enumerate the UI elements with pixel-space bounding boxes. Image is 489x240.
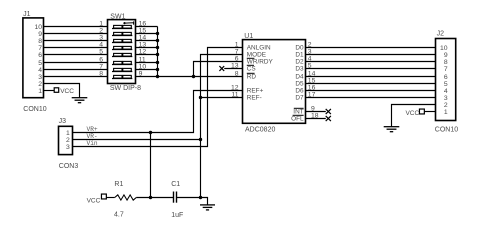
svg-text:Vin: Vin bbox=[87, 140, 98, 147]
no-connect X on OFL bbox=[306, 116, 331, 121]
svg-text:2: 2 bbox=[444, 102, 448, 109]
svg-text:6: 6 bbox=[99, 57, 103, 64]
no-connect X on CS bbox=[219, 66, 242, 71]
U1 pin CS (overline) bbox=[247, 65, 256, 72]
no-connect X on INT bbox=[306, 109, 331, 114]
svg-text:J3: J3 bbox=[59, 118, 67, 125]
svg-text:3: 3 bbox=[38, 74, 42, 81]
U1 pins D0-D7 bbox=[295, 45, 304, 102]
svg-text:MODE: MODE bbox=[247, 52, 266, 59]
bus vertical (SW1 outputs) bbox=[157, 27, 159, 77]
U1 pin RD (overline) bbox=[247, 73, 257, 80]
wire J2 pin 2 to ground bbox=[392, 105, 436, 127]
svg-text:D5: D5 bbox=[295, 81, 304, 88]
wires U1 D0-D7 to J2 bbox=[306, 48, 436, 98]
svg-text:REF-: REF- bbox=[247, 95, 262, 102]
svg-text:1: 1 bbox=[444, 109, 448, 116]
svg-text:ANLGIN: ANLGIN bbox=[247, 45, 271, 52]
svg-text:INT: INT bbox=[293, 109, 303, 116]
svg-text:7: 7 bbox=[38, 45, 42, 52]
svg-text:R1: R1 bbox=[114, 181, 123, 188]
svg-text:4: 4 bbox=[38, 67, 42, 74]
wires SW1 right pins to bus bbox=[136, 27, 158, 70]
wire J1 pin 1 to VCC bbox=[44, 90, 54, 92]
junction dot REF-/MODE net bbox=[199, 96, 202, 99]
svg-text:3: 3 bbox=[444, 95, 448, 102]
wire REF- bbox=[201, 97, 243, 99]
connector J3 bbox=[59, 118, 79, 170]
U1 left pin numbers bbox=[231, 42, 239, 99]
svg-text:1: 1 bbox=[38, 88, 42, 95]
svg-text:10: 10 bbox=[34, 24, 42, 31]
svg-text:D3: D3 bbox=[295, 66, 304, 73]
svg-text:WR/RDY: WR/RDY bbox=[247, 59, 274, 66]
U1 right pin numbers bbox=[308, 42, 319, 120]
wire VR- bbox=[73, 139, 201, 141]
wire MODE vertical bbox=[201, 55, 243, 198]
svg-text:4.7: 4.7 bbox=[114, 212, 124, 219]
junction dot R1/C1/VR+ bbox=[149, 196, 152, 199]
svg-text:3: 3 bbox=[99, 35, 103, 42]
svg-text:VCC: VCC bbox=[87, 197, 101, 204]
svg-text:D6: D6 bbox=[295, 88, 304, 95]
svg-text:2: 2 bbox=[99, 28, 103, 35]
wire ANLGIN to Vin bbox=[73, 48, 243, 147]
connector J2 bbox=[435, 31, 458, 134]
svg-text:7: 7 bbox=[235, 49, 239, 56]
dip switch SW1 bbox=[99, 13, 146, 92]
svg-text:8: 8 bbox=[235, 71, 239, 78]
junction dots on bus bbox=[156, 32, 159, 78]
svg-text:6: 6 bbox=[235, 56, 239, 63]
power symbol VCC (J2) bbox=[405, 109, 424, 117]
svg-text:SW DIP-8: SW DIP-8 bbox=[110, 85, 141, 92]
svg-text:6: 6 bbox=[38, 52, 42, 59]
svg-text:8: 8 bbox=[38, 38, 42, 45]
U1 pin OFL (overline) bbox=[291, 115, 304, 122]
svg-text:CON10: CON10 bbox=[23, 106, 46, 113]
junction dot VR- bbox=[199, 138, 202, 141]
ground (below J2) bbox=[384, 127, 400, 132]
svg-text:D2: D2 bbox=[295, 59, 304, 66]
svg-text:6: 6 bbox=[444, 74, 448, 81]
ground (below J1) bbox=[72, 98, 88, 103]
svg-text:D0: D0 bbox=[295, 45, 304, 52]
svg-text:5: 5 bbox=[444, 81, 448, 88]
svg-text:D1: D1 bbox=[295, 52, 304, 59]
svg-text:7: 7 bbox=[444, 66, 448, 73]
svg-text:REF+: REF+ bbox=[247, 88, 264, 95]
svg-text:D7: D7 bbox=[295, 95, 304, 102]
junction dot MODE net at C1 bbox=[199, 196, 202, 199]
power symbol VCC (R1) bbox=[87, 194, 107, 204]
svg-text:U1: U1 bbox=[244, 33, 253, 40]
connector J1 bbox=[23, 11, 47, 113]
svg-text:8: 8 bbox=[444, 59, 448, 66]
ground (bottom center) bbox=[200, 205, 215, 210]
svg-text:VR+: VR+ bbox=[87, 126, 98, 133]
svg-text:5: 5 bbox=[99, 49, 103, 56]
wire WR/RDY vertical bbox=[194, 62, 243, 77]
svg-text:2: 2 bbox=[38, 81, 42, 88]
svg-text:VCC: VCC bbox=[405, 110, 419, 117]
svg-text:3: 3 bbox=[66, 144, 70, 151]
wire J1 pin 2 to ground bbox=[44, 84, 80, 98]
wire C1 to ground bbox=[177, 198, 208, 205]
svg-text:CON3: CON3 bbox=[59, 163, 79, 170]
svg-text:9: 9 bbox=[444, 52, 448, 59]
wire R1 to C1 bbox=[136, 197, 173, 199]
power symbol VCC (J1) bbox=[54, 88, 74, 95]
svg-text:12: 12 bbox=[231, 85, 239, 92]
wire REF+ to VR+ bbox=[73, 91, 243, 133]
svg-text:4: 4 bbox=[444, 88, 448, 95]
svg-text:7: 7 bbox=[99, 64, 103, 71]
svg-text:11: 11 bbox=[231, 92, 238, 99]
svg-text:2: 2 bbox=[66, 137, 70, 144]
svg-text:C1: C1 bbox=[171, 181, 180, 188]
svg-text:CS: CS bbox=[247, 66, 256, 73]
U1 pin INT (overline) bbox=[293, 108, 303, 115]
wires J1 pins 10-3 to SW1 pins 1-8 bbox=[44, 27, 108, 77]
wire J2 pin 1 to VCC bbox=[424, 111, 435, 113]
svg-text:VR-: VR- bbox=[87, 133, 98, 140]
svg-text:1: 1 bbox=[99, 21, 103, 28]
U1 pin WR/RDY (overline WR) bbox=[247, 58, 274, 65]
junction dot RD/bus net bbox=[192, 75, 195, 78]
svg-text:D4: D4 bbox=[295, 74, 304, 81]
svg-text:1: 1 bbox=[235, 42, 239, 49]
svg-text:J2: J2 bbox=[437, 31, 445, 38]
svg-text:8: 8 bbox=[99, 71, 103, 78]
svg-text:1uF: 1uF bbox=[171, 212, 183, 219]
svg-text:5: 5 bbox=[38, 60, 42, 67]
junction dot VR+ bbox=[149, 131, 152, 134]
svg-text:VCC: VCC bbox=[60, 88, 74, 95]
capacitor C1 bbox=[171, 181, 183, 219]
svg-text:OFL: OFL bbox=[291, 116, 304, 123]
svg-text:9: 9 bbox=[38, 31, 42, 38]
svg-text:SW1: SW1 bbox=[110, 13, 125, 20]
wire VR+ down to RC junction bbox=[150, 133, 152, 198]
SW1 actuator lever (position 1) bbox=[123, 22, 125, 24]
svg-text:RD: RD bbox=[247, 74, 257, 81]
svg-text:CON10: CON10 bbox=[435, 127, 458, 134]
svg-text:ADC0820: ADC0820 bbox=[245, 126, 275, 133]
svg-text:J1: J1 bbox=[23, 11, 31, 18]
svg-text:4: 4 bbox=[99, 42, 103, 49]
svg-text:10: 10 bbox=[440, 45, 448, 52]
wire VCC to R1 bbox=[106, 197, 114, 199]
wire SW1 pin 9 row to U1 RD bbox=[136, 76, 243, 78]
svg-text:1: 1 bbox=[66, 130, 70, 137]
svg-text:13: 13 bbox=[231, 63, 239, 70]
IC U1 ADC0820 bbox=[243, 33, 306, 133]
resistor R1 bbox=[114, 181, 136, 219]
